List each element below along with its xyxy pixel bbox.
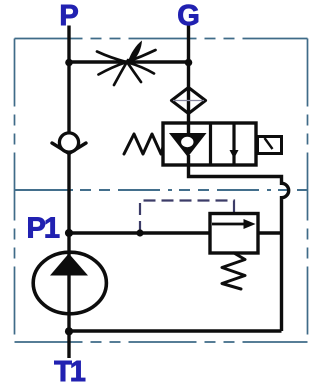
fixed orifice (diamond): [172, 88, 206, 114]
wire: G vertical down into valve: [187, 26, 190, 134]
relief valve flow arrow: [212, 223, 246, 226]
flow arrow (open position): [232, 123, 235, 165]
svg-text:P: P: [59, 0, 78, 32]
adjustable throttle valve: [97, 50, 156, 85]
check valve: [52, 143, 86, 154]
wire: P1 horizontal to relief valve: [69, 231, 210, 234]
wire: bottom horizontal T line: [69, 329, 282, 332]
junction node P/top-left: [65, 59, 73, 67]
svg-text:T1: T1: [54, 356, 86, 388]
valve position divider: [209, 123, 212, 165]
junction node G/top-right: [185, 59, 193, 67]
manifold enclosure boundary (dashed blue frame): [15, 39, 308, 343]
junction node P1: [65, 229, 73, 237]
section divider dashed line: [15, 189, 70, 191]
wire: top horizontal P to G: [69, 60, 189, 63]
wire: relief valve outlet to drain line: [258, 231, 282, 234]
wire: valve drain to bottom right with hop over divider: [189, 155, 289, 331]
solenoid valve U1 body: [163, 123, 256, 165]
svg-text:P1: P1: [27, 213, 60, 245]
svg-text:G: G: [177, 0, 200, 32]
junction node pilot tap: [136, 229, 143, 236]
poppet seat circle: [181, 137, 193, 147]
junction node T1: [65, 327, 73, 335]
pilot dashed line to relief valve: [140, 201, 234, 234]
relief valve spring: [222, 253, 245, 289]
poppet triangle (closed position): [169, 133, 207, 157]
pump (circle with up triangle): [33, 252, 106, 314]
solenoid actuator: [258, 137, 282, 154]
valve return spring: [124, 134, 163, 154]
relief valve RV body: [210, 214, 258, 254]
wire: main vertical line P to T1: [67, 26, 70, 359]
